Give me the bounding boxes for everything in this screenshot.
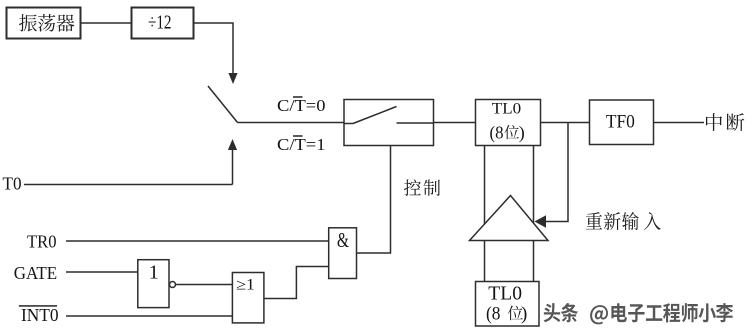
svg-text:(8: (8 — [490, 123, 504, 144]
wire INT0 — [66, 315, 232, 317]
label 振荡器 — [19, 14, 37, 31]
svg-text:&: & — [337, 229, 349, 252]
wire TR0 — [66, 240, 329, 242]
svg-text:C/T=0: C/T=0 — [277, 96, 326, 115]
wire oscillator to divider — [81, 22, 132, 24]
wire switch pole to control box — [238, 122, 345, 124]
wire control box bottom to AND output — [357, 146, 391, 254]
svg-text:÷12: ÷12 — [148, 12, 172, 34]
wire divider to switch with down arrowhead — [194, 23, 234, 74]
wire OR to AND — [264, 267, 329, 299]
wire TL0 to TF0 — [541, 122, 590, 124]
overline on T of C/T=0 — [293, 96, 303, 98]
svg-text:): ) — [519, 123, 525, 144]
divider box ÷12 — [132, 8, 194, 39]
svg-text:T0: T0 — [3, 174, 22, 194]
wire reload tap with left arrowhead — [545, 123, 568, 222]
wire NOT to OR — [176, 284, 233, 286]
flag box TF0 — [590, 100, 654, 145]
wire control to TL0 — [434, 122, 476, 124]
svg-text:INT0: INT0 — [21, 305, 59, 325]
svg-text:TF0: TF0 — [606, 112, 635, 133]
svg-text:TR0: TR0 — [27, 232, 57, 252]
svg-text:TL0: TL0 — [488, 283, 522, 304]
wire T0 — [24, 184, 233, 186]
bus line right TL0 to TH0 — [533, 146, 535, 282]
T0 up arrow into switch — [232, 149, 234, 185]
switch arm (counter/timer select) — [208, 86, 238, 123]
register TH0 shown as TL0 (8-bit) bottom — [476, 282, 540, 327]
register TL0 (8-bit) — [476, 100, 541, 146]
gate NOT (1) with bubble — [138, 260, 169, 308]
svg-text:TL0: TL0 — [492, 101, 521, 118]
overline on T of C/T=1 — [293, 135, 303, 137]
svg-text:GATE: GATE — [14, 263, 57, 283]
svg-text:(8: (8 — [486, 304, 501, 325]
svg-text:): ) — [521, 304, 527, 325]
svg-text:1: 1 — [149, 262, 159, 284]
gate OR (>=1) — [232, 273, 264, 323]
watermark 头条@电子工程师小李 — [544, 303, 733, 324]
svg-text:≥1: ≥1 — [236, 277, 255, 294]
watermark white shadow — [546, 305, 735, 326]
gate AND (&) — [329, 228, 357, 279]
wire TF0 to interrupt — [654, 122, 705, 124]
svg-text:C/T=1: C/T=1 — [277, 135, 326, 154]
buffer triangle (reload) — [470, 196, 549, 241]
oscillator box 振荡器 — [7, 8, 81, 39]
label 中断 — [706, 113, 722, 131]
bus line left TL0 to TH0 — [484, 146, 486, 282]
label 重新输入 — [586, 212, 602, 229]
wire GATE — [66, 271, 138, 273]
control box with internal switch — [344, 100, 434, 146]
label 控制 — [404, 179, 421, 195]
